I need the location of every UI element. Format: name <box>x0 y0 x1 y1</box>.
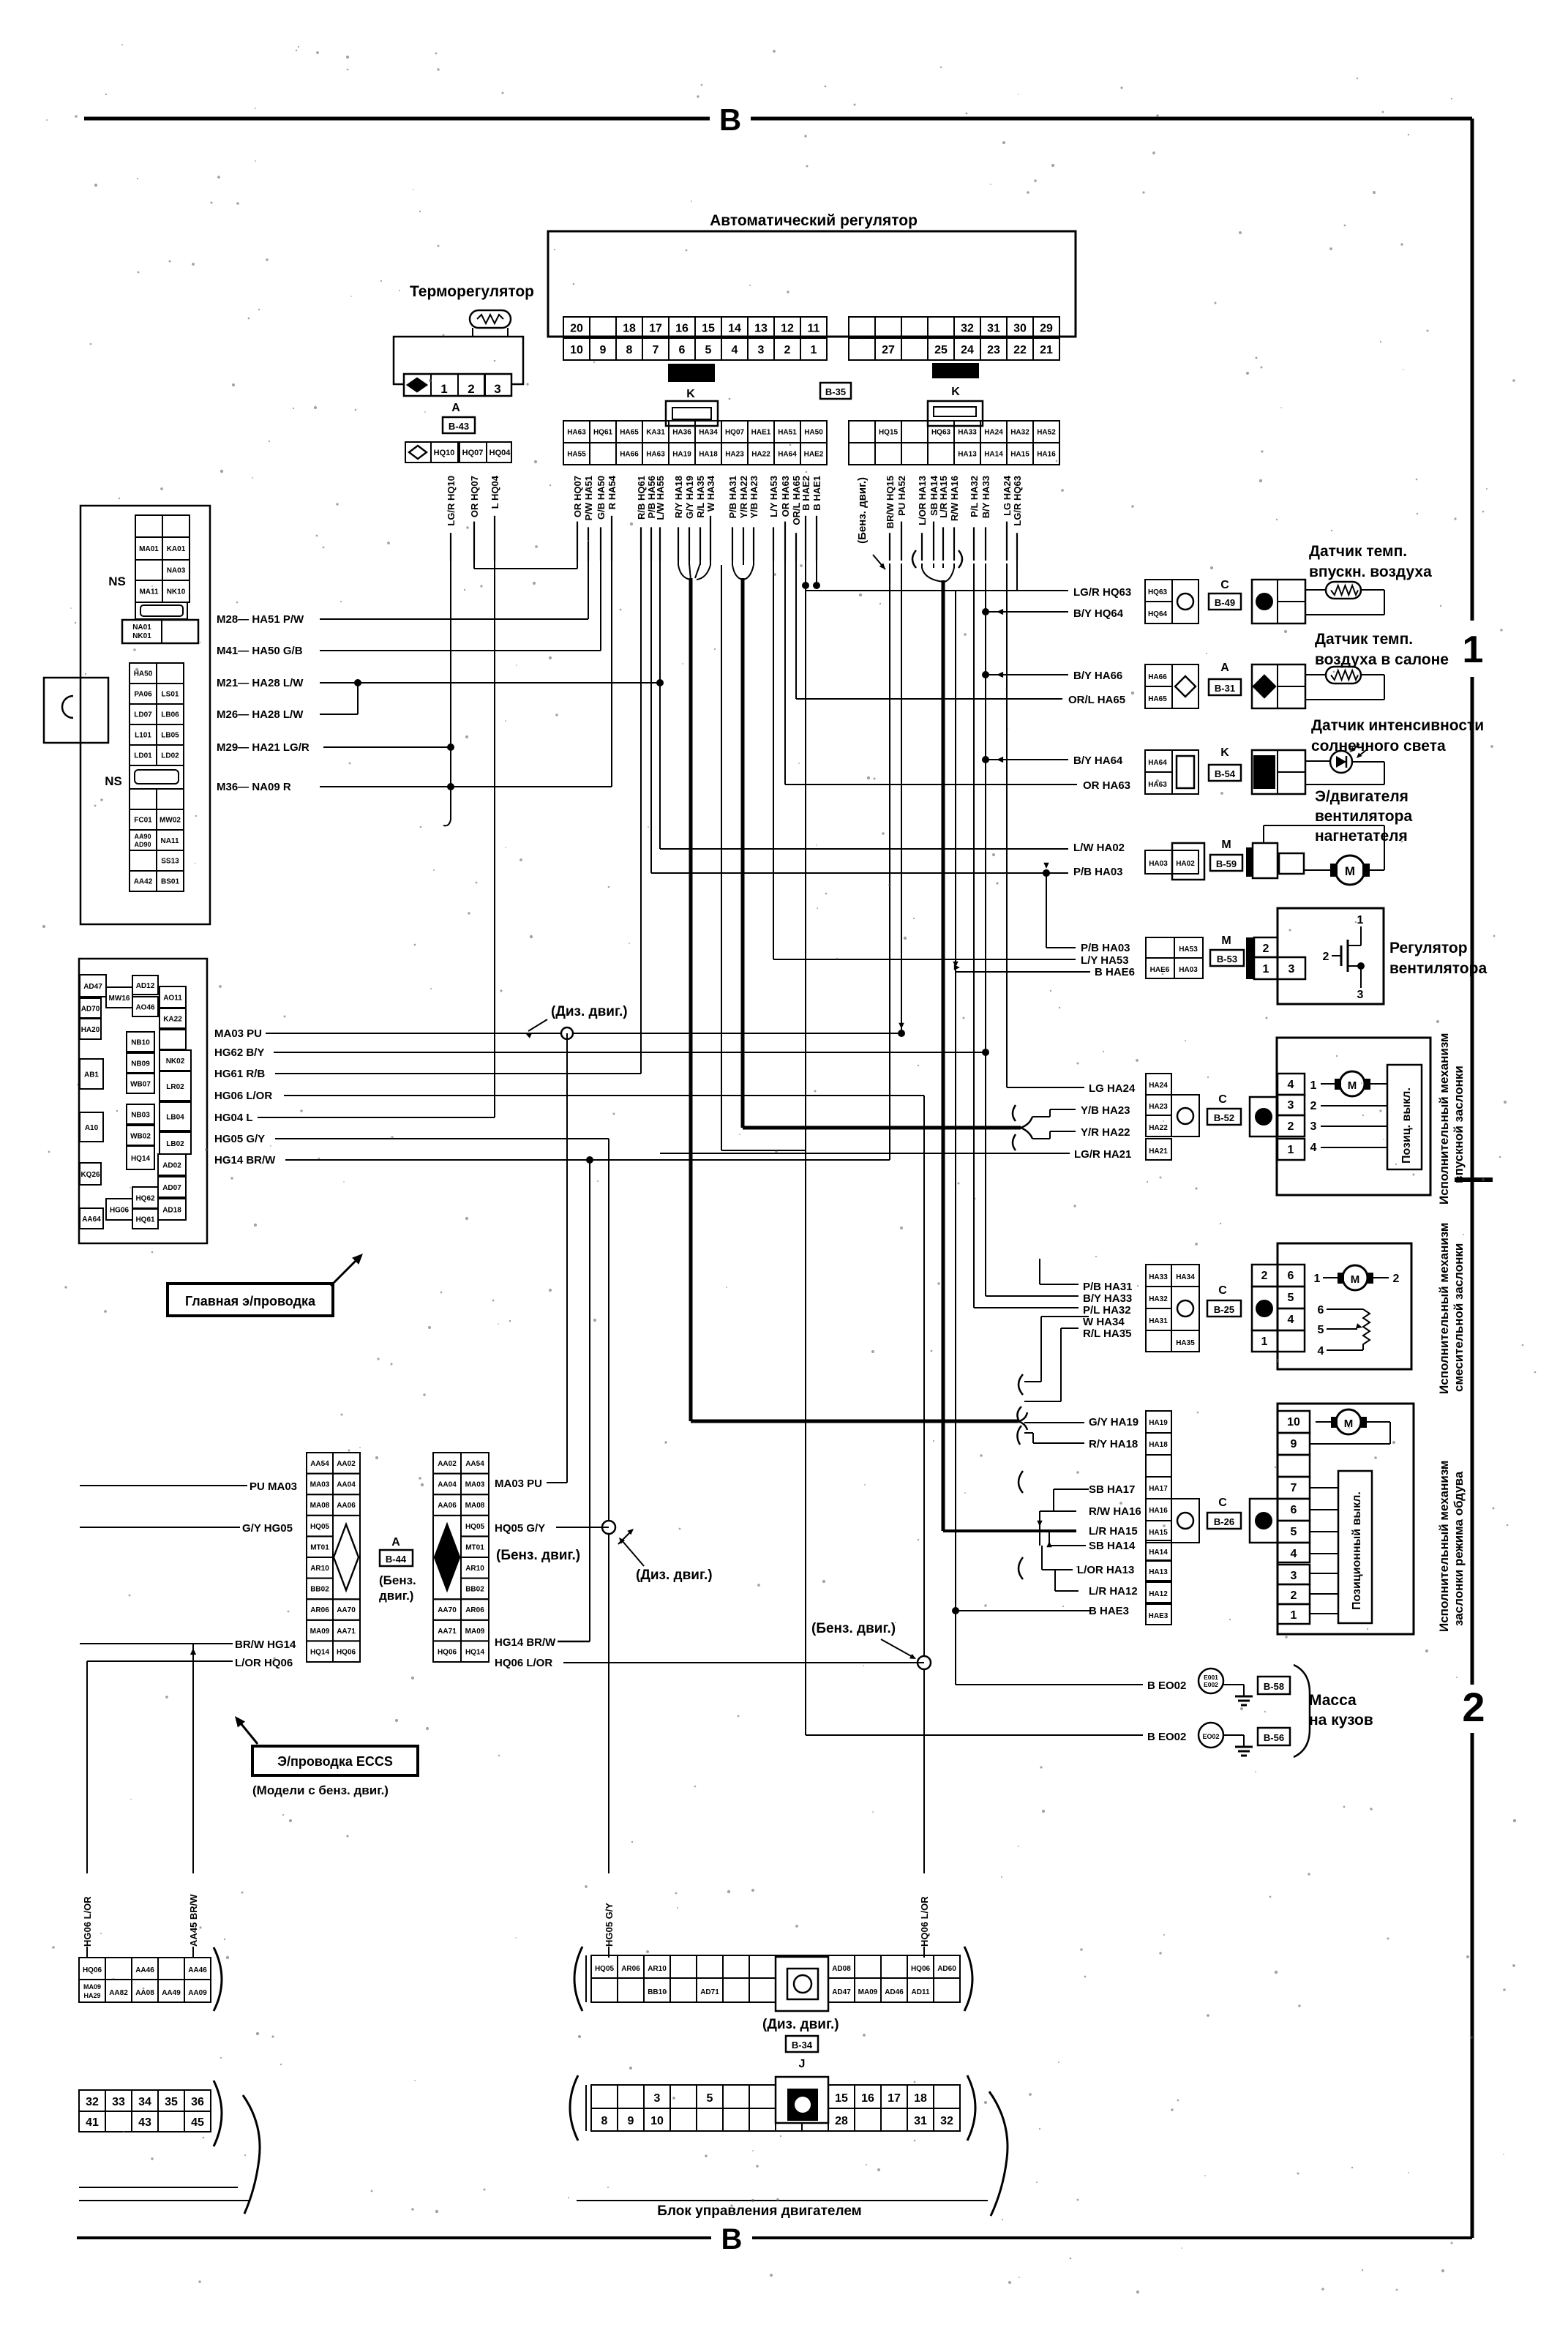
svg-text:KA22: KA22 <box>163 1016 182 1024</box>
svg-text:Датчик темп.: Датчик темп. <box>1315 631 1413 648</box>
svg-text:OR HA63: OR HA63 <box>1083 779 1130 792</box>
svg-text:NK02: NK02 <box>166 1057 185 1066</box>
svg-text:AD90: AD90 <box>134 841 151 848</box>
svg-text:MA01: MA01 <box>139 545 159 553</box>
svg-text:18: 18 <box>623 322 636 334</box>
svg-text:B-43: B-43 <box>449 421 469 432</box>
svg-text:2: 2 <box>784 344 791 356</box>
svg-text:BS01: BS01 <box>161 878 179 886</box>
svg-text:HA33: HA33 <box>958 429 977 437</box>
svg-text:2: 2 <box>1263 943 1269 955</box>
svg-text:MT01: MT01 <box>465 1543 484 1551</box>
svg-text:3: 3 <box>494 382 500 396</box>
svg-text:B-25: B-25 <box>1214 1304 1234 1315</box>
svg-text:R/L HA35: R/L HA35 <box>1083 1327 1131 1340</box>
svg-text:HG14 BR/W: HG14 BR/W <box>495 1636 556 1649</box>
svg-text:MW16: MW16 <box>109 995 130 1003</box>
svg-text:1: 1 <box>1310 1079 1317 1092</box>
svg-text:M: M <box>1221 839 1231 851</box>
svg-text:HAE6: HAE6 <box>1150 966 1170 974</box>
svg-text:B/Y HA64: B/Y HA64 <box>1073 754 1123 767</box>
svg-text:AA02: AA02 <box>438 1460 457 1468</box>
svg-text:M: M <box>1345 864 1355 878</box>
svg-text:C: C <box>1218 1093 1227 1106</box>
svg-text:L/Y HA53: L/Y HA53 <box>1081 954 1129 967</box>
svg-text:HQ64: HQ64 <box>1148 610 1168 618</box>
svg-text:A: A <box>451 402 460 414</box>
svg-text:HQ63: HQ63 <box>1148 588 1168 596</box>
svg-text:A: A <box>391 1536 400 1549</box>
svg-text:Y/R HA22: Y/R HA22 <box>738 476 749 519</box>
svg-text:(Бенз.: (Бенз. <box>379 1573 416 1587</box>
svg-text:M29— HA21 LG/R: M29— HA21 LG/R <box>217 741 310 754</box>
svg-text:HA17: HA17 <box>1149 1485 1168 1493</box>
svg-text:B-49: B-49 <box>1215 597 1235 608</box>
svg-text:B: B <box>719 102 741 137</box>
svg-text:NB10: NB10 <box>131 1039 150 1047</box>
svg-text:9: 9 <box>1291 1438 1297 1450</box>
svg-text:M: M <box>1348 1079 1357 1092</box>
svg-text:8: 8 <box>601 2115 608 2127</box>
svg-text:2: 2 <box>1310 1100 1317 1112</box>
svg-text:HG06 L/OR: HG06 L/OR <box>214 1090 272 1102</box>
svg-text:LD07: LD07 <box>134 711 152 719</box>
svg-text:12: 12 <box>781 322 794 334</box>
svg-text:HA20: HA20 <box>81 1026 100 1034</box>
svg-text:B EO02: B EO02 <box>1147 1679 1186 1692</box>
svg-text:HA16: HA16 <box>1037 451 1056 459</box>
svg-text:B HAE3: B HAE3 <box>1089 1605 1129 1617</box>
svg-text:Позиц. выкл.: Позиц. выкл. <box>1400 1087 1413 1164</box>
svg-text:A: A <box>1220 662 1229 674</box>
svg-text:L/R HA12: L/R HA12 <box>1089 1585 1138 1598</box>
svg-text:AR10: AR10 <box>310 1565 329 1573</box>
svg-text:31: 31 <box>914 2115 927 2127</box>
svg-text:HA34: HA34 <box>1176 1273 1195 1281</box>
svg-text:L HQ04: L HQ04 <box>489 475 500 509</box>
svg-text:M21— HA28 L/W: M21— HA28 L/W <box>217 677 304 689</box>
svg-text:36: 36 <box>191 2096 204 2108</box>
svg-text:(Модели с бенз. двиг.): (Модели с бенз. двиг.) <box>252 1783 389 1797</box>
svg-text:LR02: LR02 <box>166 1083 184 1091</box>
svg-text:AA42: AA42 <box>134 878 153 886</box>
svg-text:AR10: AR10 <box>648 1965 667 1973</box>
svg-text:10: 10 <box>650 2115 664 2127</box>
svg-text:AD02: AD02 <box>162 1162 181 1170</box>
svg-text:G/Y HA19: G/Y HA19 <box>684 476 695 519</box>
svg-text:AD60: AD60 <box>937 1965 956 1973</box>
svg-text:NS: NS <box>105 774 122 788</box>
svg-text:LG HA24: LG HA24 <box>1002 475 1013 516</box>
svg-text:NA03: NA03 <box>167 567 186 575</box>
svg-text:MA08: MA08 <box>465 1502 485 1510</box>
svg-text:Терморегулятор: Терморегулятор <box>410 283 534 300</box>
svg-text:1: 1 <box>1314 1273 1321 1285</box>
svg-text:B HAE2: B HAE2 <box>800 476 811 511</box>
svg-text:B HAE1: B HAE1 <box>811 476 822 511</box>
svg-text:HQ06 L/OR: HQ06 L/OR <box>919 1896 930 1947</box>
svg-text:5: 5 <box>1291 1526 1297 1538</box>
svg-text:5: 5 <box>707 2092 713 2105</box>
svg-text:G/Y HG05: G/Y HG05 <box>242 1522 293 1535</box>
svg-text:7: 7 <box>653 344 659 356</box>
svg-text:W HA34: W HA34 <box>1083 1316 1125 1328</box>
svg-text:HA14: HA14 <box>984 451 1003 459</box>
svg-text:HQ15: HQ15 <box>879 429 899 437</box>
svg-text:AA82: AA82 <box>109 1989 128 1997</box>
svg-text:P/B HA03: P/B HA03 <box>1081 942 1130 954</box>
svg-text:6: 6 <box>1318 1304 1324 1317</box>
svg-text:2: 2 <box>1462 1684 1485 1730</box>
svg-text:LG/R HA21: LG/R HA21 <box>1074 1148 1131 1161</box>
svg-text:Исполнительный механизм: Исполнительный механизм <box>1437 1033 1451 1205</box>
svg-text:HA66: HA66 <box>620 451 639 459</box>
svg-text:15: 15 <box>702 322 715 334</box>
svg-text:LG/R HQ63: LG/R HQ63 <box>1073 586 1131 599</box>
svg-text:5: 5 <box>1288 1292 1294 1304</box>
svg-text:P/L HA32: P/L HA32 <box>969 476 980 517</box>
svg-text:AD47: AD47 <box>83 983 102 991</box>
svg-text:W HA34: W HA34 <box>705 475 716 512</box>
svg-text:HQ06: HQ06 <box>337 1648 356 1656</box>
svg-text:4: 4 <box>1318 1345 1324 1358</box>
svg-text:32: 32 <box>940 2115 953 2127</box>
svg-text:L/R HA15: L/R HA15 <box>1089 1525 1138 1538</box>
svg-text:E002: E002 <box>1204 1681 1218 1688</box>
svg-text:R HA54: R HA54 <box>607 475 618 509</box>
svg-text:HQ10: HQ10 <box>434 449 455 457</box>
svg-text:HQ62: HQ62 <box>135 1195 155 1203</box>
svg-text:MA08: MA08 <box>310 1502 330 1510</box>
svg-text:20: 20 <box>570 322 583 334</box>
svg-text:HQ06 L/OR: HQ06 L/OR <box>495 1657 552 1669</box>
svg-text:34: 34 <box>138 2096 151 2108</box>
svg-text:вентилятора: вентилятора <box>1315 808 1412 825</box>
svg-text:MT01: MT01 <box>310 1543 329 1551</box>
svg-text:LB05: LB05 <box>161 732 179 740</box>
svg-text:нагнетателя: нагнетателя <box>1315 828 1408 845</box>
svg-text:B/Y HA33: B/Y HA33 <box>980 476 991 518</box>
svg-text:R/Y HA18: R/Y HA18 <box>673 476 684 518</box>
svg-text:HQ14: HQ14 <box>310 1648 330 1656</box>
svg-text:(Диз. двиг.): (Диз. двиг.) <box>636 1568 713 1583</box>
svg-text:OR HQ07: OR HQ07 <box>469 476 480 517</box>
svg-text:HA14: HA14 <box>1149 1549 1168 1557</box>
svg-text:AA02: AA02 <box>337 1460 356 1468</box>
svg-text:Исполнительный механизм: Исполнительный механизм <box>1437 1223 1451 1394</box>
svg-text:HG14 BR/W: HG14 BR/W <box>214 1154 276 1166</box>
svg-text:HQ14: HQ14 <box>465 1648 485 1656</box>
svg-text:HA32: HA32 <box>1010 429 1029 437</box>
svg-text:HA13: HA13 <box>958 451 977 459</box>
svg-text:HA63: HA63 <box>567 429 586 437</box>
svg-text:SB HA17: SB HA17 <box>1089 1483 1135 1496</box>
svg-text:заслонки режима обдува: заслонки режима обдува <box>1452 1471 1466 1626</box>
svg-text:OR HQ07: OR HQ07 <box>572 476 583 517</box>
svg-text:NA01: NA01 <box>132 623 151 632</box>
svg-text:HQ63: HQ63 <box>931 429 951 437</box>
svg-text:OR/L HA65: OR/L HA65 <box>1068 694 1125 706</box>
svg-text:LB02: LB02 <box>166 1140 184 1148</box>
svg-text:OR HA63: OR HA63 <box>780 476 791 517</box>
svg-text:HA36: HA36 <box>672 429 691 437</box>
svg-text:B/Y HA66: B/Y HA66 <box>1073 670 1122 682</box>
svg-text:AA46: AA46 <box>135 1966 154 1974</box>
svg-text:B-26: B-26 <box>1214 1516 1234 1527</box>
svg-text:L/OR HA13: L/OR HA13 <box>917 476 928 525</box>
svg-text:воздуха в салоне: воздуха в салоне <box>1315 651 1449 668</box>
svg-text:(Бенз. двиг.): (Бенз. двиг.) <box>496 1548 580 1563</box>
svg-text:L/OR HA13: L/OR HA13 <box>1077 1564 1134 1576</box>
svg-text:4: 4 <box>1291 1548 1297 1560</box>
svg-text:AA09: AA09 <box>188 1989 207 1997</box>
svg-text:LS01: LS01 <box>162 691 179 699</box>
svg-text:AD46: AD46 <box>885 1988 904 1996</box>
svg-text:2: 2 <box>1288 1120 1294 1133</box>
svg-text:HA18: HA18 <box>699 451 718 459</box>
svg-text:Исполнительный механизм: Исполнительный механизм <box>1437 1461 1451 1632</box>
svg-text:3: 3 <box>1288 1099 1294 1112</box>
svg-text:K: K <box>951 386 960 398</box>
svg-text:MA03: MA03 <box>310 1481 330 1489</box>
svg-text:HG62 B/Y: HG62 B/Y <box>214 1046 264 1059</box>
svg-text:M: M <box>1221 935 1231 947</box>
svg-text:B-53: B-53 <box>1217 954 1237 965</box>
svg-text:Э/проводка ECCS: Э/проводка ECCS <box>277 1754 393 1769</box>
svg-text:HA52: HA52 <box>1037 429 1056 437</box>
svg-text:24: 24 <box>961 344 974 356</box>
svg-text:AA49: AA49 <box>162 1989 181 1997</box>
svg-text:30: 30 <box>1013 322 1027 334</box>
svg-text:C: C <box>1218 1284 1227 1297</box>
svg-text:HA23: HA23 <box>725 451 744 459</box>
svg-text:AD08: AD08 <box>832 1965 851 1973</box>
svg-text:HA02: HA02 <box>1176 860 1195 868</box>
svg-text:BB02: BB02 <box>310 1586 329 1594</box>
svg-text:M41— HA50 G/B: M41— HA50 G/B <box>217 645 303 657</box>
svg-text:HA65: HA65 <box>1148 695 1167 703</box>
svg-text:HA24: HA24 <box>1149 1082 1168 1090</box>
svg-text:(Бенз. двиг.): (Бенз. двиг.) <box>811 1621 896 1636</box>
svg-text:KA01: KA01 <box>167 545 186 553</box>
svg-text:AD07: AD07 <box>162 1184 181 1192</box>
svg-text:M: M <box>1344 1418 1354 1430</box>
svg-text:HA29: HA29 <box>83 1992 100 1999</box>
svg-text:A10: A10 <box>85 1124 99 1132</box>
svg-text:9: 9 <box>628 2115 634 2127</box>
svg-text:MW02: MW02 <box>160 817 181 825</box>
svg-text:HA64: HA64 <box>1148 759 1167 767</box>
svg-text:HA50: HA50 <box>134 670 153 678</box>
svg-text:HA19: HA19 <box>672 451 691 459</box>
svg-text:HA65: HA65 <box>620 429 639 437</box>
svg-text:SS13: SS13 <box>161 858 179 866</box>
svg-text:(Бенз. двиг.): (Бенз. двиг.) <box>856 477 869 544</box>
svg-text:HA35: HA35 <box>1176 1339 1195 1347</box>
svg-text:Позиционный выкл.: Позиционный выкл. <box>1351 1491 1363 1610</box>
svg-text:HA24: HA24 <box>984 429 1003 437</box>
svg-text:AR10: AR10 <box>465 1565 484 1573</box>
svg-text:B EO02: B EO02 <box>1147 1731 1186 1743</box>
svg-text:HQ05 G/Y: HQ05 G/Y <box>495 1522 545 1535</box>
svg-text:M28— HA51 P/W: M28— HA51 P/W <box>217 613 304 626</box>
svg-text:3: 3 <box>1291 1570 1297 1582</box>
svg-text:Главная э/проводка: Главная э/проводка <box>185 1294 316 1308</box>
svg-text:B-44: B-44 <box>386 1554 407 1565</box>
svg-text:E001: E001 <box>1204 1674 1218 1681</box>
svg-text:KA31: KA31 <box>646 429 665 437</box>
svg-text:AD18: AD18 <box>162 1207 181 1215</box>
svg-text:AA04: AA04 <box>337 1481 356 1489</box>
svg-text:FC01: FC01 <box>134 817 152 825</box>
svg-text:AR06: AR06 <box>621 1965 640 1973</box>
svg-text:двиг.): двиг.) <box>379 1589 413 1603</box>
svg-text:G/B HA50: G/B HA50 <box>596 476 607 520</box>
svg-text:HQ06: HQ06 <box>911 1965 931 1973</box>
svg-text:HA50: HA50 <box>804 429 823 437</box>
svg-text:Y/R HA22: Y/R HA22 <box>1081 1126 1130 1139</box>
svg-text:AA64: AA64 <box>82 1216 101 1224</box>
svg-text:HG04 L: HG04 L <box>214 1112 253 1124</box>
svg-text:HA03: HA03 <box>1149 860 1168 868</box>
svg-text:L/R HA15: L/R HA15 <box>938 476 949 518</box>
svg-text:PU HA52: PU HA52 <box>896 476 907 516</box>
svg-text:P/W HA51: P/W HA51 <box>583 476 594 520</box>
svg-text:MA03: MA03 <box>465 1481 485 1489</box>
svg-text:L101: L101 <box>135 732 151 740</box>
svg-text:MA09: MA09 <box>858 1988 878 1996</box>
svg-text:10: 10 <box>570 344 583 356</box>
svg-text:AA70: AA70 <box>337 1606 356 1614</box>
svg-text:C: C <box>1220 579 1229 591</box>
svg-text:KQ26: KQ26 <box>80 1171 100 1179</box>
svg-text:HA12: HA12 <box>1149 1590 1168 1598</box>
svg-text:HQ14: HQ14 <box>131 1155 151 1163</box>
svg-text:HA15: HA15 <box>1010 451 1029 459</box>
svg-text:9: 9 <box>600 344 607 356</box>
svg-text:вентилятора: вентилятора <box>1389 960 1487 977</box>
svg-text:P/L HA32: P/L HA32 <box>1083 1304 1131 1317</box>
svg-text:AD70: AD70 <box>81 1006 100 1014</box>
svg-text:AO46: AO46 <box>135 1004 155 1012</box>
svg-text:8: 8 <box>626 344 633 356</box>
svg-text:Датчик интенсивности: Датчик интенсивности <box>1311 717 1484 734</box>
svg-text:AA04: AA04 <box>438 1481 457 1489</box>
svg-text:16: 16 <box>675 322 689 334</box>
svg-text:3: 3 <box>758 344 765 356</box>
svg-text:L/OR HQ06: L/OR HQ06 <box>235 1657 293 1669</box>
svg-text:NA11: NA11 <box>160 837 179 845</box>
svg-text:B/Y HA33: B/Y HA33 <box>1083 1292 1132 1305</box>
svg-text:J: J <box>799 2058 806 2070</box>
svg-text:Блок управления двигателем: Блок управления двигателем <box>657 2203 861 2219</box>
svg-text:AA46: AA46 <box>188 1966 207 1974</box>
svg-text:3: 3 <box>1357 989 1364 1001</box>
svg-text:L/W HA55: L/W HA55 <box>655 476 666 520</box>
svg-text:28: 28 <box>835 2115 848 2127</box>
svg-text:MA03 PU: MA03 PU <box>495 1478 542 1490</box>
svg-text:10: 10 <box>1287 1416 1300 1428</box>
svg-text:3: 3 <box>1288 963 1295 975</box>
svg-text:HA13: HA13 <box>1149 1568 1168 1576</box>
svg-text:солнечного света: солнечного света <box>1311 738 1446 754</box>
svg-text:AA54: AA54 <box>465 1460 484 1468</box>
svg-text:P/B HA03: P/B HA03 <box>1073 866 1123 878</box>
svg-text:NK01: NK01 <box>132 632 151 640</box>
svg-text:1: 1 <box>440 382 447 396</box>
svg-text:P/B HA31: P/B HA31 <box>1083 1281 1133 1293</box>
svg-text:AD12: AD12 <box>136 982 155 990</box>
svg-text:B: B <box>721 2223 743 2255</box>
svg-text:WB07: WB07 <box>130 1081 151 1089</box>
svg-text:R/W HA16: R/W HA16 <box>1089 1505 1141 1518</box>
svg-text:LG/R HQ63: LG/R HQ63 <box>1012 476 1023 526</box>
svg-text:B-59: B-59 <box>1216 858 1237 869</box>
svg-text:LB04: LB04 <box>166 1114 184 1122</box>
svg-text:6: 6 <box>679 344 686 356</box>
svg-text:PA06: PA06 <box>134 691 152 699</box>
svg-text:HA22: HA22 <box>751 451 770 459</box>
svg-text:1: 1 <box>1263 963 1269 975</box>
svg-text:MA09: MA09 <box>465 1628 485 1636</box>
svg-text:M: M <box>1351 1273 1360 1286</box>
svg-text:HAE2: HAE2 <box>804 451 824 459</box>
svg-text:6: 6 <box>1288 1270 1294 1282</box>
svg-text:HQ61: HQ61 <box>593 429 613 437</box>
svg-text:MA03 PU: MA03 PU <box>214 1027 262 1040</box>
svg-text:29: 29 <box>1040 322 1053 334</box>
svg-text:NB09: NB09 <box>131 1060 150 1068</box>
svg-text:HA03: HA03 <box>1179 966 1198 974</box>
svg-text:22: 22 <box>1013 344 1027 356</box>
svg-text:HA21: HA21 <box>1149 1147 1168 1156</box>
svg-text:P/B HA31: P/B HA31 <box>727 476 738 519</box>
svg-text:27: 27 <box>882 344 895 356</box>
svg-text:G/Y HA19: G/Y HA19 <box>1089 1416 1139 1428</box>
svg-text:AA45 BR/W: AA45 BR/W <box>188 1894 199 1947</box>
svg-text:HQ06: HQ06 <box>438 1648 457 1656</box>
svg-text:23: 23 <box>987 344 1000 356</box>
svg-text:1: 1 <box>811 344 817 356</box>
svg-text:EO02: EO02 <box>1202 1733 1219 1740</box>
svg-text:B HAE6: B HAE6 <box>1095 966 1135 978</box>
svg-text:15: 15 <box>835 2092 848 2105</box>
svg-text:4: 4 <box>1288 1079 1294 1091</box>
svg-text:1: 1 <box>1261 1336 1268 1348</box>
svg-text:LG/R HQ10: LG/R HQ10 <box>446 476 457 526</box>
svg-text:LG HA24: LG HA24 <box>1089 1082 1136 1095</box>
svg-text:AR06: AR06 <box>465 1606 484 1614</box>
svg-text:BR/W HG14: BR/W HG14 <box>235 1639 296 1651</box>
svg-text:HA34: HA34 <box>699 429 718 437</box>
svg-text:R/B HQ61: R/B HQ61 <box>636 476 647 520</box>
svg-text:AA71: AA71 <box>438 1628 457 1636</box>
svg-text:HA18: HA18 <box>1149 1441 1168 1449</box>
svg-text:B-58: B-58 <box>1264 1681 1284 1692</box>
svg-text:B-35: B-35 <box>825 386 846 397</box>
svg-text:2: 2 <box>1291 1589 1297 1602</box>
svg-text:Автоматический регулятор: Автоматический регулятор <box>710 212 918 229</box>
svg-text:AA71: AA71 <box>337 1628 356 1636</box>
svg-text:B-52: B-52 <box>1214 1112 1234 1123</box>
svg-text:HA51: HA51 <box>778 429 797 437</box>
svg-text:L/W HA02: L/W HA02 <box>1073 842 1125 854</box>
svg-text:AA08: AA08 <box>135 1989 154 1997</box>
svg-text:HA19: HA19 <box>1149 1419 1168 1427</box>
svg-text:HA66: HA66 <box>1148 673 1167 681</box>
svg-text:NK10: NK10 <box>167 588 186 596</box>
svg-text:4: 4 <box>1310 1142 1317 1154</box>
